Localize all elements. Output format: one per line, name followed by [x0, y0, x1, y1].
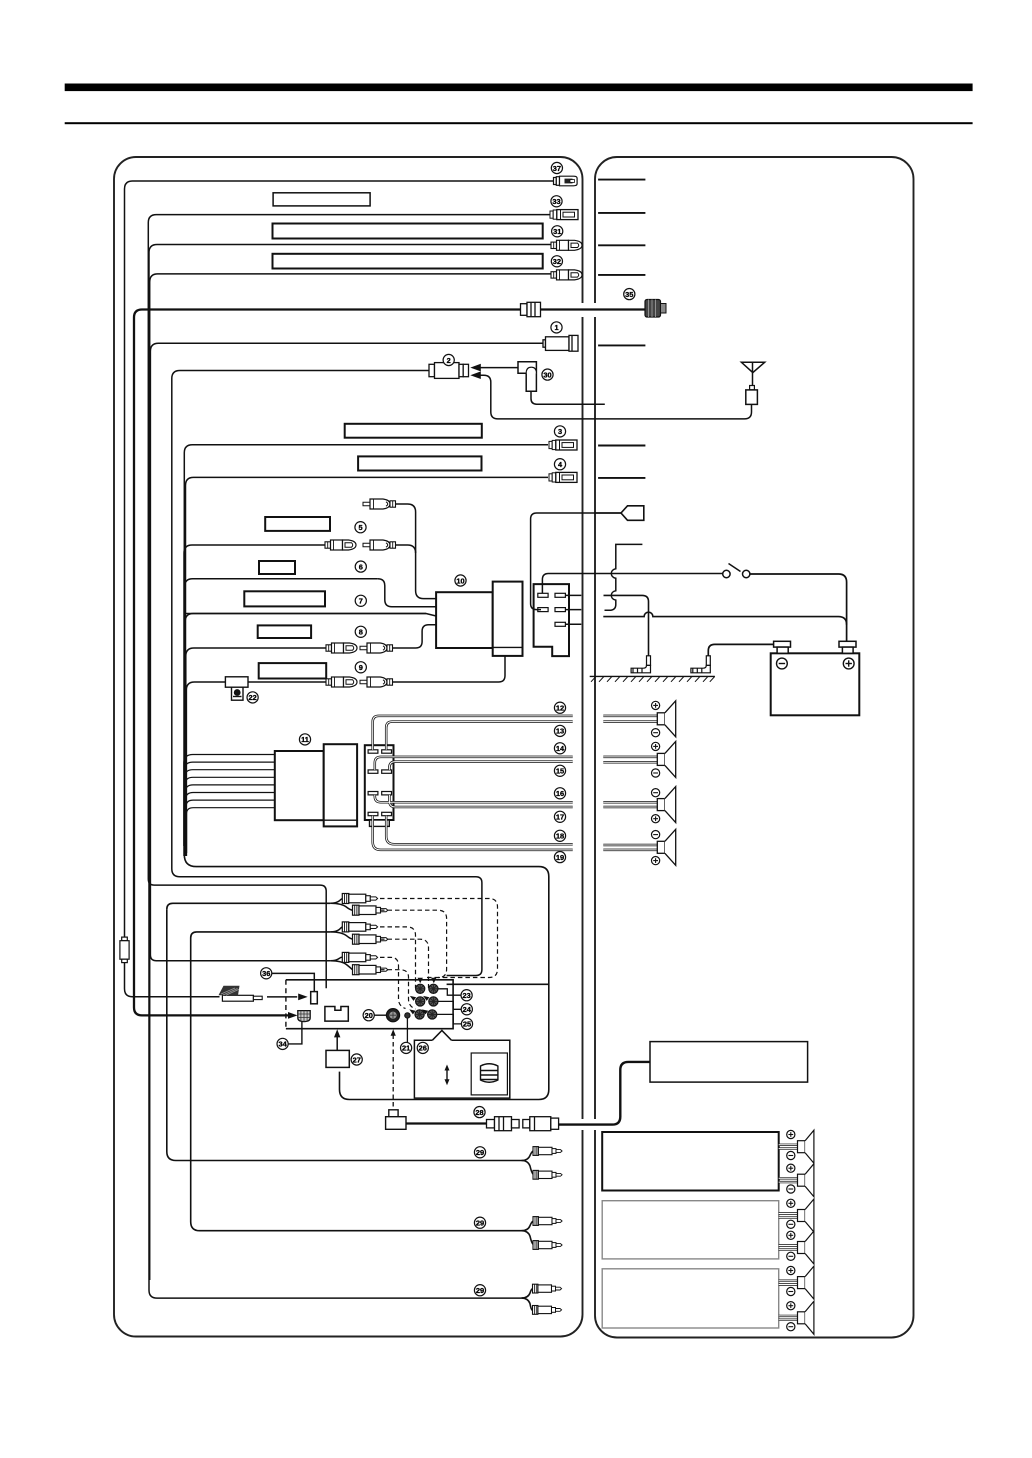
svg-text:22: 22 [248, 693, 256, 702]
svg-text:2: 2 [447, 356, 451, 365]
svg-text:13: 13 [556, 727, 564, 736]
svg-text:26: 26 [419, 1044, 427, 1053]
svg-text:29: 29 [476, 1219, 484, 1228]
svg-text:29: 29 [476, 1148, 484, 1157]
svg-text:25: 25 [463, 1020, 471, 1029]
svg-text:19: 19 [556, 853, 564, 862]
svg-text:27: 27 [353, 1055, 361, 1064]
svg-text:37: 37 [553, 164, 561, 173]
svg-text:31: 31 [553, 227, 561, 236]
svg-text:32: 32 [553, 257, 561, 266]
svg-text:23: 23 [462, 991, 470, 1000]
svg-text:3: 3 [558, 427, 562, 436]
svg-text:33: 33 [552, 197, 560, 206]
svg-text:15: 15 [556, 767, 564, 776]
svg-text:21: 21 [402, 1044, 410, 1053]
svg-text:16: 16 [556, 789, 564, 798]
svg-text:5: 5 [358, 523, 362, 532]
svg-text:28: 28 [475, 1108, 483, 1117]
svg-text:20: 20 [365, 1011, 373, 1020]
svg-text:11: 11 [301, 735, 309, 744]
svg-text:18: 18 [556, 832, 564, 841]
svg-text:6: 6 [359, 562, 363, 571]
svg-text:36: 36 [262, 969, 270, 978]
svg-text:29: 29 [476, 1286, 484, 1295]
svg-text:8: 8 [359, 628, 363, 637]
svg-text:9: 9 [359, 663, 363, 672]
svg-text:34: 34 [278, 1040, 287, 1049]
svg-text:30: 30 [543, 370, 551, 379]
svg-text:1: 1 [554, 323, 558, 332]
svg-text:10: 10 [456, 576, 464, 585]
svg-text:35: 35 [625, 290, 633, 299]
svg-text:7: 7 [359, 597, 363, 606]
svg-text:14: 14 [556, 744, 565, 753]
svg-text:12: 12 [556, 704, 564, 713]
svg-text:17: 17 [556, 813, 564, 822]
svg-text:24: 24 [463, 1005, 472, 1014]
